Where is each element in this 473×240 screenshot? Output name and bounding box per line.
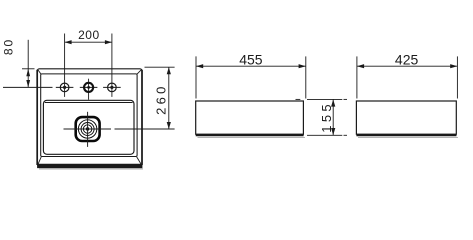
rim chamfer bottom-left	[38, 157, 42, 165]
svg-text:260: 260	[153, 83, 168, 115]
svg-text:455: 455	[239, 51, 263, 67]
faucet hole left	[60, 83, 69, 92]
rim chamfer top-left	[38, 69, 42, 74]
holes centerline	[3, 86, 121, 88]
basin inner rim	[41, 74, 137, 157]
faucet hole right	[108, 83, 117, 92]
dimension 155	[296, 99, 348, 135]
side elevation body	[356, 101, 458, 137]
rim chamfer top-right	[137, 69, 142, 74]
drain centerline vertical	[87, 112, 89, 147]
dimension 80	[22, 40, 35, 88]
svg-text:200: 200	[78, 28, 100, 42]
svg-text:425: 425	[395, 51, 419, 67]
drain	[76, 117, 100, 141]
bowl back wall line	[45, 102, 133, 104]
rim chamfer bottom-right	[137, 157, 142, 165]
faucet hole middle (drilled)	[84, 79, 93, 100]
dimension 200	[65, 34, 112, 97]
svg-text:155: 155	[319, 101, 334, 133]
svg-text:80: 80	[2, 38, 16, 55]
dimension 260	[145, 67, 175, 129]
drain centerline horizontal	[64, 128, 175, 130]
dimension 455	[196, 56, 306, 98]
front elevation body	[196, 101, 305, 137]
basin outer edge	[37, 69, 143, 169]
dimension 425	[357, 56, 458, 98]
bowl (inner basin)	[43, 100, 134, 154]
